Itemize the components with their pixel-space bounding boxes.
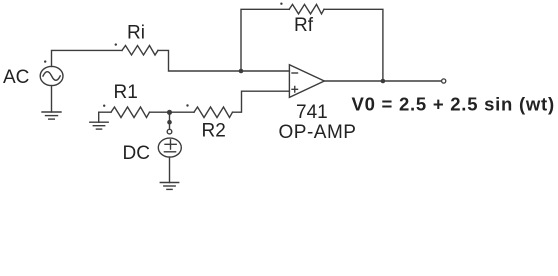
svg-text:DC: DC: [123, 143, 150, 164]
node junction inverting input: [239, 69, 244, 74]
wire R1 to junction: [150, 111, 170, 113]
wire DC bottom to ground: [169, 157, 171, 182]
voltage source DC V2: [158, 138, 181, 157]
resistor Rf: [289, 4, 324, 14]
net marker dot near Ri: [115, 43, 117, 45]
wire Rf left vertical: [241, 9, 289, 71]
wire op-amp output: [324, 80, 441, 82]
resistor R2: [194, 107, 233, 118]
net marker dot near Rf: [280, 3, 282, 5]
svg-text:V0 = 2.5 + 2.5 sin (wt): V0 = 2.5 + 2.5 sin (wt): [352, 94, 555, 115]
svg-text:Ri: Ri: [127, 23, 145, 44]
svg-text:AC: AC: [3, 67, 29, 88]
wire AC top to Ri: [52, 50, 123, 66]
wire Rf right vertical to output: [324, 9, 383, 81]
DC source top terminal: [167, 129, 172, 134]
node junction output: [381, 79, 386, 84]
ground (AC source): [42, 112, 61, 119]
wire junction to DC source: [169, 112, 171, 129]
svg-text:741: 741: [296, 102, 328, 123]
node dot above DC terminal: [167, 120, 172, 125]
ground (DC source): [160, 183, 178, 190]
svg-text:OP-AMP: OP-AMP: [279, 122, 357, 143]
svg-text:Rf: Rf: [294, 15, 314, 36]
wire AC bottom to ground: [51, 86, 53, 112]
wire R2 to non-inverting input: [233, 91, 290, 112]
net marker dot near AC: [44, 60, 46, 62]
voltage source AC V1: [40, 66, 63, 85]
op-amp U1 741: [289, 65, 324, 98]
ground (R1): [90, 122, 108, 129]
wire R1 ground to resistor: [99, 112, 111, 122]
svg-text:R2: R2: [202, 121, 226, 142]
wire Ri to inverting input: [158, 50, 289, 71]
output terminal: [442, 79, 446, 83]
resistor Ri: [122, 46, 158, 56]
net marker dot near R1: [103, 105, 105, 107]
node junction R1 R2 DC: [167, 110, 172, 115]
resistor R1: [111, 107, 150, 118]
net marker dot near R2: [186, 104, 188, 106]
svg-text:R1: R1: [114, 82, 138, 103]
wire junction to R2: [170, 111, 195, 113]
